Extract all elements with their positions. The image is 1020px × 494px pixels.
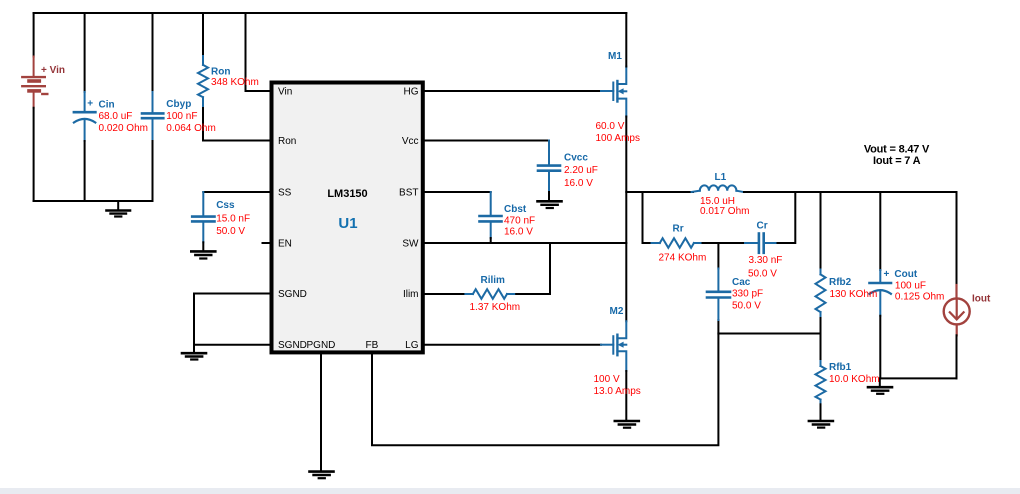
- wire Cin bottom: [84, 141, 86, 201]
- wire output bottom: [880, 377, 956, 379]
- svg-text:Ron: Ron: [278, 136, 296, 147]
- svg-text:Cr: Cr: [757, 221, 768, 232]
- svg-text:15.0 nF: 15.0 nF: [216, 214, 250, 225]
- svg-text:HG: HG: [404, 87, 419, 98]
- wire Cin top: [84, 13, 86, 92]
- capacitor Css: [192, 192, 214, 242]
- capacitor Cbst: [480, 192, 502, 238]
- svg-text:M2: M2: [610, 306, 624, 317]
- wire Iout top: [956, 192, 958, 285]
- wire Vcc pin: [425, 140, 549, 142]
- wire Rfb1 top: [820, 334, 822, 361]
- wire ripple drop: [643, 192, 652, 243]
- svg-text:U1: U1: [338, 215, 357, 232]
- ground Cvcc: [538, 201, 562, 208]
- svg-text:PGND: PGND: [307, 340, 336, 351]
- svg-text:Cin: Cin: [99, 99, 115, 110]
- wire Rfb2 bottom: [820, 318, 822, 334]
- capacitor Cvcc: [538, 141, 560, 193]
- transistor M2: [601, 321, 626, 371]
- resistor Ron: [198, 56, 208, 108]
- wire Cr to rail: [778, 192, 796, 243]
- svg-text:+ Vin: + Vin: [41, 65, 65, 76]
- ground Css: [191, 251, 215, 258]
- svg-text:1.37 KOhm: 1.37 KOhm: [470, 302, 521, 313]
- svg-text:Iout: Iout: [972, 294, 991, 305]
- ground Cout: [868, 378, 892, 393]
- wire Ron to pin: [203, 108, 270, 141]
- resistor Rr: [652, 238, 703, 248]
- wire input bottom rail: [34, 200, 153, 202]
- wire Ron top: [202, 13, 204, 56]
- svg-text:10.0 KOhm: 10.0 KOhm: [829, 374, 880, 385]
- svg-text:50.0 V: 50.0 V: [732, 301, 761, 312]
- svg-text:130 KOhm: 130 KOhm: [830, 289, 878, 300]
- inductor L1: [692, 185, 744, 192]
- wire Rfb2 top: [820, 192, 822, 270]
- wire Css to ground: [202, 242, 204, 250]
- svg-text:Rr: Rr: [673, 224, 684, 235]
- svg-text:Cout: Cout: [894, 269, 917, 280]
- svg-text:Rfb1: Rfb1: [829, 362, 852, 373]
- svg-text:0.125 Ohm: 0.125 Ohm: [895, 292, 944, 303]
- svg-text:0.017 Ohm: 0.017 Ohm: [700, 206, 749, 217]
- wire top rail: [34, 12, 627, 14]
- capacitor Cac: [707, 269, 730, 321]
- svg-text:Cbyp: Cbyp: [166, 99, 191, 110]
- svg-text:+: +: [87, 99, 93, 110]
- svg-text:Css: Css: [216, 200, 235, 211]
- wire M1 source to M2 drain: [625, 117, 627, 322]
- wire FB junction to resistors: [718, 333, 820, 335]
- svg-text:Cbst: Cbst: [504, 204, 527, 215]
- wire BST pin: [425, 191, 491, 193]
- wire M2 source to ground: [625, 371, 627, 420]
- svg-text:LG: LG: [405, 340, 419, 351]
- svg-text:100 nF: 100 nF: [166, 111, 197, 122]
- wire output rail right: [744, 191, 957, 193]
- battery Vin: [22, 57, 47, 108]
- svg-text:68.0 uF: 68.0 uF: [99, 111, 133, 122]
- svg-text:100 Amps: 100 Amps: [596, 133, 640, 144]
- wire Rilim to SW: [516, 243, 550, 294]
- svg-text:Rilim: Rilim: [481, 275, 506, 286]
- svg-text:330 pF: 330 pF: [732, 289, 763, 300]
- wire Rr to Cr: [703, 242, 746, 244]
- svg-text:2.20 uF: 2.20 uF: [564, 165, 598, 176]
- svg-text:Ilim: Ilim: [403, 289, 419, 300]
- wire Cvcc to ground: [548, 192, 550, 201]
- svg-text:50.0 V: 50.0 V: [216, 226, 245, 237]
- capacitor Cout: [870, 270, 892, 316]
- svg-text:+: +: [884, 269, 890, 280]
- svg-text:50.0 V: 50.0 V: [748, 268, 777, 279]
- svg-text:Vin: Vin: [278, 87, 292, 98]
- wire Cout top: [879, 192, 881, 270]
- svg-text:Vout = 8.47 V: Vout = 8.47 V: [864, 144, 930, 156]
- resistor Rilim: [465, 289, 516, 299]
- svg-text:Rfb2: Rfb2: [829, 277, 852, 288]
- svg-text:FB: FB: [366, 340, 379, 351]
- svg-text:348 KOhm: 348 KOhm: [211, 77, 259, 88]
- svg-text:BST: BST: [399, 188, 418, 199]
- current source Iout: [944, 285, 970, 335]
- svg-text:274 KOhm: 274 KOhm: [659, 253, 707, 264]
- wire FB net: [372, 320, 718, 445]
- wire Cout bottom: [879, 316, 881, 379]
- svg-text:Ron: Ron: [211, 67, 230, 78]
- capacitor Cr: [745, 234, 778, 253]
- wire Cac top: [717, 243, 719, 269]
- svg-text:60.0 V: 60.0 V: [596, 121, 625, 132]
- svg-text:Cac: Cac: [732, 277, 751, 288]
- ground M2: [615, 421, 639, 428]
- wire HG pin: [425, 90, 601, 92]
- resistor Rfb2: [816, 270, 826, 319]
- ground PGND: [310, 472, 334, 479]
- wire Iout bottom: [956, 335, 958, 378]
- svg-text:SS: SS: [278, 188, 292, 199]
- wire Cbyp bottom: [152, 141, 154, 201]
- svg-text:SGND: SGND: [278, 340, 307, 351]
- wire Vin pin: [246, 13, 270, 91]
- wire battery top: [33, 13, 35, 57]
- wire M1 drain: [625, 13, 627, 67]
- svg-text:13.0 Amps: 13.0 Amps: [594, 386, 641, 397]
- svg-text:Cvcc: Cvcc: [564, 153, 588, 164]
- wire SW pin: [425, 242, 627, 244]
- ground Rfb1: [809, 421, 833, 428]
- svg-text:EN: EN: [278, 239, 292, 250]
- svg-text:SW: SW: [402, 239, 419, 250]
- svg-text:SGND: SGND: [278, 289, 307, 300]
- svg-text:0.020 Ohm: 0.020 Ohm: [99, 123, 148, 134]
- svg-text:470 nF: 470 nF: [504, 216, 535, 227]
- wire EN stub: [263, 242, 270, 244]
- op-amp U1 chip body LM3150: [272, 83, 423, 353]
- wire LG pin: [425, 344, 601, 346]
- wire Rfb1 to ground: [820, 404, 822, 420]
- svg-text:0.064 Ohm: 0.064 Ohm: [166, 123, 215, 134]
- transistor M1: [601, 67, 626, 117]
- capacitor Cbyp: [142, 92, 163, 141]
- capacitor Cin: [74, 92, 96, 141]
- svg-text:M1: M1: [608, 51, 622, 62]
- bottom status strip: [0, 488, 1020, 494]
- wire Ilim pin: [425, 293, 466, 295]
- wire battery bottom: [33, 108, 35, 201]
- wire Cbyp top: [152, 13, 154, 92]
- svg-text:16.0 V: 16.0 V: [564, 178, 593, 189]
- svg-text:LM3150: LM3150: [327, 188, 367, 200]
- svg-text:16.0 V: 16.0 V: [504, 227, 533, 238]
- wire SS pin: [203, 191, 269, 193]
- wire SGND loop: [194, 294, 270, 345]
- wire output rail: [626, 191, 693, 193]
- resistor Rfb1: [816, 361, 826, 404]
- svg-text:L1: L1: [715, 172, 727, 183]
- svg-text:100 uF: 100 uF: [895, 280, 926, 291]
- wire PGND drop: [320, 354, 322, 471]
- svg-text:Vcc: Vcc: [402, 136, 419, 147]
- svg-text:100 V: 100 V: [594, 374, 620, 385]
- svg-text:Iout = 7 A: Iout = 7 A: [873, 155, 921, 167]
- ground SGND: [182, 345, 206, 360]
- wire Cbst to SW: [490, 238, 492, 243]
- svg-text:3.30 nF: 3.30 nF: [749, 255, 783, 266]
- ground input rail: [107, 201, 131, 217]
